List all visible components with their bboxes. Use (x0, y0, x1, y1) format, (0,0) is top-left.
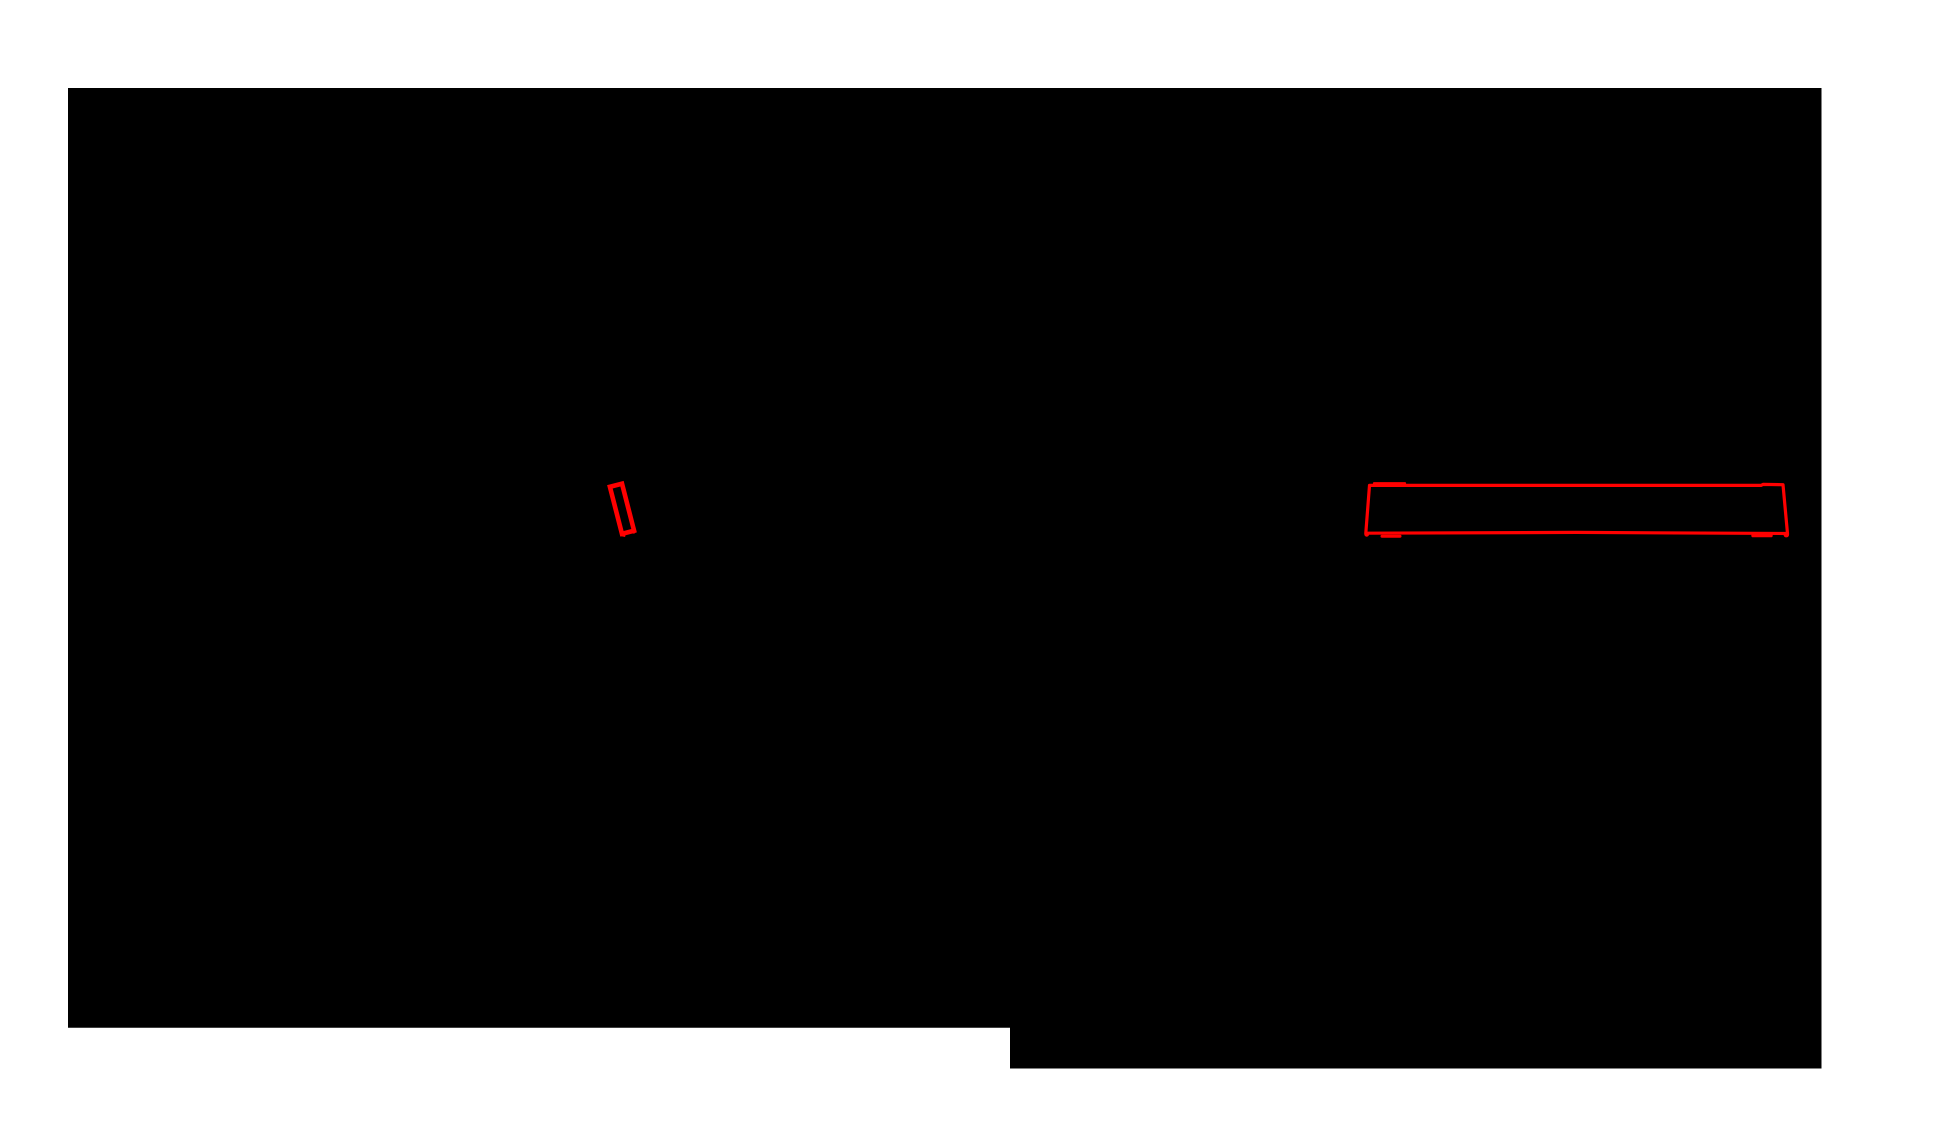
pen overshoot below bottom-left of box 2 (1382, 535, 1400, 538)
pen overshoot below bottom-right of box 2 (1753, 534, 1771, 537)
annotation box 1 (small tilted red rectangle) (610, 484, 636, 535)
pen blob at bottom-left corner of box 2 (1364, 532, 1369, 537)
pen blob at bottom-right corner of box 2 (1784, 532, 1790, 538)
pen overshoot above top-left of box 2 (1374, 482, 1405, 484)
dark photo region (underexposed photograph, irregular black blob) (68, 88, 1822, 1069)
annotation box 2 (large red trapezoid outline) (1364, 483, 1789, 537)
